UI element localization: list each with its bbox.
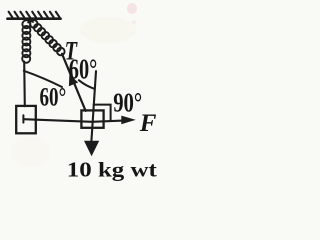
left vertical string [23,62,26,107]
arc of top 60 angle [79,80,95,89]
pink smudge top right [127,3,137,14]
svg-text:F: F [139,110,157,137]
string anchor tick inside left block [22,115,24,122]
left block (hanging mass) [16,106,36,133]
spring S1 (vertical coil from ceiling) [22,20,30,63]
ceiling hatch ticks [9,12,60,18]
weight arrow (down) [84,141,99,156]
faint yellow paper tint lower-left area [10,137,50,167]
horizontal string from left block to knot [23,119,126,122]
right-angle (90) mark [94,105,111,120]
force F arrowhead [121,116,136,125]
label T [65,37,78,66]
knot block (square with cross) [81,110,103,127]
svg-text:60°: 60° [40,83,67,112]
svg-text:10 kg wt: 10 kg wt [67,158,158,182]
vertical reference line through knot [91,71,96,141]
faint yellow paper tint upper area [80,17,136,43]
svg-text:90°: 90° [113,86,142,117]
tension arrowhead on string T [69,74,78,86]
paper background [0,0,197,222]
svg-text:60°: 60° [69,54,98,86]
arc of left 60 angle [24,71,62,87]
string T (diagonal line to knot) [62,54,86,111]
pink dot [132,21,136,25]
spring S2 (diagonal coil from ceiling) [30,20,65,55]
ceiling line [8,17,61,20]
